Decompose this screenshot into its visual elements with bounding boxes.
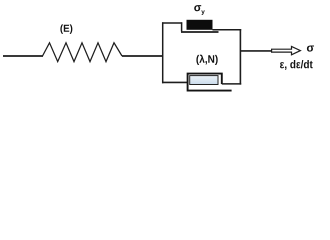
wire left edge of parallel loop	[162, 22, 164, 83]
friction block (slider pad)	[187, 20, 213, 30]
label (E)	[60, 24, 72, 34]
wire bottom-left segment to dashpot	[162, 81, 188, 83]
wire right lead of spring	[122, 55, 163, 57]
wire left lead	[3, 55, 43, 57]
dashpot piston	[190, 76, 218, 85]
output wire	[240, 50, 271, 52]
wire right edge of parallel loop	[239, 29, 241, 85]
label (lambda,N)	[196, 55, 217, 65]
label epsilon, depsilon/dt	[280, 60, 313, 70]
friction surface line	[181, 31, 219, 33]
label sigma_y	[194, 5, 201, 11]
dashpot cylinder (housing)	[188, 74, 232, 91]
label sigma (stress)	[307, 45, 314, 51]
wire top-left segment	[162, 22, 182, 24]
spring E (zigzag)	[43, 43, 123, 62]
wire from block to top-right corner	[213, 29, 242, 31]
friction element step (vertical)	[181, 22, 183, 31]
block arrow (stress output)	[272, 46, 301, 54]
wire from dashpot to bottom-right corner	[222, 83, 241, 85]
